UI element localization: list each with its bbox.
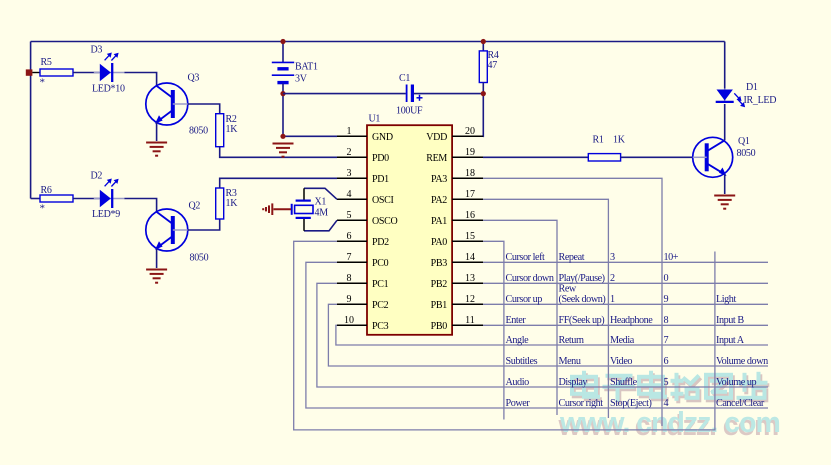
wire Q1 collector to D1: [724, 104, 726, 140]
svg-text:PD1: PD1: [372, 174, 389, 185]
svg-text:Media: Media: [610, 335, 635, 346]
key matrix labels: [506, 252, 769, 409]
junction R4 / C1 / VDD: [481, 91, 486, 96]
wire rail to BAT1: [282, 42, 284, 63]
svg-text:PC2: PC2: [372, 300, 389, 311]
LED D2: [94, 179, 125, 209]
ground Q2 emitter: [146, 270, 167, 283]
wire X1 bottom pin stub: [303, 219, 305, 231]
svg-text:PB1: PB1: [431, 300, 448, 311]
U1 pin 4 OSCI: [337, 198, 367, 200]
U1 pin 1 GND: [337, 135, 367, 137]
svg-text:20: 20: [465, 126, 475, 137]
wire OSCI pin4 to X1 top: [304, 188, 337, 199]
U1 pin 11 PB0: [452, 324, 483, 326]
wire PC1 pin8 loop to Audio row: [317, 283, 768, 387]
node R5 input port: [26, 69, 33, 75]
svg-text:3: 3: [347, 168, 352, 179]
svg-text:11: 11: [465, 315, 475, 326]
svg-text:Cursor up: Cursor up: [506, 294, 543, 305]
svg-text:OSCO: OSCO: [372, 216, 398, 227]
wire R5 left stub: [32, 72, 40, 74]
svg-text:Audio: Audio: [506, 377, 530, 388]
svg-text:3V: 3V: [295, 74, 308, 85]
svg-text:R5: R5: [41, 57, 52, 68]
wire D2 cathode to Q2 collector: [125, 199, 157, 213]
svg-text:D2: D2: [91, 171, 103, 182]
svg-text:Angle: Angle: [506, 335, 530, 346]
capacitor C1: [407, 85, 423, 103]
wire BAT1 to C1: [283, 93, 406, 95]
svg-text:5: 5: [664, 377, 669, 388]
ground X1 case (signal ground): [263, 203, 291, 215]
resistor R5: [40, 69, 73, 76]
svg-text:1K: 1K: [226, 198, 239, 209]
svg-text:REM: REM: [426, 153, 447, 164]
svg-text:7: 7: [664, 335, 669, 346]
svg-text:13: 13: [465, 273, 475, 284]
svg-text:8: 8: [664, 315, 669, 326]
wire R4 to VDD pin 20: [482, 83, 484, 137]
wire D3 cathode to Q3 collector: [125, 73, 157, 87]
svg-text:14: 14: [465, 252, 475, 263]
svg-text:LED*10: LED*10: [92, 84, 125, 95]
U1 pin 13 PB2: [452, 282, 483, 284]
wire Q2 emitter to ground: [156, 249, 158, 269]
U1 pin 10 PC3: [337, 324, 367, 326]
svg-text:Cursor down: Cursor down: [506, 273, 554, 284]
U1 pin 15 PA0: [452, 240, 483, 242]
wire D1 anode to rail: [724, 42, 726, 89]
svg-text:PA0: PA0: [431, 237, 447, 248]
svg-text:U1: U1: [369, 114, 381, 125]
svg-text:1: 1: [610, 294, 615, 305]
svg-text:1: 1: [347, 126, 352, 137]
svg-text:PC1: PC1: [372, 279, 389, 290]
svg-text:PB2: PB2: [431, 279, 448, 290]
svg-text:D3: D3: [91, 45, 103, 56]
wire PD2 pin6 loop to column 5: [294, 241, 715, 430]
svg-text:0: 0: [664, 273, 669, 284]
resistor R6: [40, 195, 73, 202]
svg-text:3: 3: [610, 252, 615, 263]
U1 pin 17 PA2: [452, 198, 483, 200]
svg-text:Light: Light: [716, 294, 736, 305]
svg-text:4M: 4M: [315, 208, 329, 219]
U1 pin 7 PC0: [337, 261, 367, 263]
LED D3: [94, 53, 125, 83]
svg-text:Rew: Rew: [559, 284, 577, 295]
battery BAT1: [272, 62, 294, 82]
U1 pin 8 PC1: [337, 282, 367, 284]
svg-text:Enter: Enter: [506, 315, 527, 326]
svg-text:1K: 1K: [613, 135, 626, 146]
wire R6 to D2: [73, 198, 100, 200]
svg-text:R6: R6: [41, 185, 52, 196]
svg-text:*: *: [40, 77, 45, 89]
svg-text:Input B: Input B: [716, 315, 744, 326]
svg-text:8050: 8050: [737, 148, 756, 159]
wire PB3 pin14 key row 1: [483, 261, 768, 263]
svg-text:Volume up: Volume up: [716, 377, 757, 388]
svg-text:PA1: PA1: [431, 216, 447, 227]
wire Q3 base to R2: [188, 104, 220, 114]
svg-text:7: 7: [347, 252, 352, 263]
LED D1: [716, 89, 745, 108]
wire Q3 emitter to ground: [156, 123, 158, 142]
svg-text:2: 2: [610, 273, 615, 284]
svg-text:10: 10: [344, 315, 354, 326]
wire rail to R4: [482, 42, 484, 51]
svg-text:Power: Power: [506, 398, 531, 409]
svg-text:OSCI: OSCI: [372, 195, 394, 206]
U1 pin 14 PB3: [452, 261, 483, 263]
svg-text:PC3: PC3: [372, 321, 389, 332]
svg-text:GND: GND: [372, 132, 393, 143]
U1 pin 16 PA1: [452, 219, 483, 221]
wire X1 top pin stub: [303, 188, 305, 200]
wire R5 to D3: [73, 72, 100, 74]
U1 pin 6 PD2: [337, 240, 367, 242]
resistor R4: [479, 51, 487, 83]
wire REM pin19 to R1: [483, 156, 588, 158]
wire PC3 pin10 loop to Angle row: [336, 325, 768, 345]
svg-text:VDD: VDD: [426, 132, 447, 143]
svg-text:Stop(Eject): Stop(Eject): [610, 398, 652, 409]
wire PA1 pin16 key column 2: [483, 220, 557, 415]
svg-text:Volume down: Volume down: [716, 356, 768, 367]
junction R4 top rail: [481, 39, 486, 44]
wire PA0 pin15 key column 1: [483, 241, 504, 419]
svg-text:D1: D1: [746, 82, 758, 93]
svg-text:8050: 8050: [190, 253, 209, 264]
ground Q3 emitter: [146, 143, 167, 156]
svg-text:Cancel/Clear: Cancel/Clear: [716, 398, 765, 409]
svg-text:16: 16: [465, 210, 475, 221]
svg-text:18: 18: [465, 168, 475, 179]
svg-text:1K: 1K: [226, 124, 239, 135]
svg-text:Shuffle: Shuffle: [610, 377, 638, 388]
junction BAT1 top rail: [280, 39, 285, 44]
svg-text:PA2: PA2: [431, 195, 447, 206]
svg-text:PB3: PB3: [431, 258, 448, 269]
svg-text:4: 4: [347, 189, 352, 200]
junction BAT1 minus / C1: [280, 91, 285, 96]
svg-text:4: 4: [664, 398, 669, 409]
svg-text:Repeat: Repeat: [559, 252, 585, 263]
wire left rail to R6: [31, 198, 40, 200]
svg-text:Play(/Pause): Play(/Pause): [559, 273, 605, 284]
wire PB1 pin12 key row 3: [483, 303, 768, 305]
svg-text:LED*9: LED*9: [92, 209, 120, 220]
svg-text:8050: 8050: [189, 126, 208, 137]
svg-text:9: 9: [347, 294, 352, 305]
svg-text:Cursor right: Cursor right: [559, 398, 604, 409]
svg-text:8: 8: [347, 273, 352, 284]
U1 pin 2 PD0: [337, 156, 367, 158]
svg-text:12: 12: [465, 294, 475, 305]
svg-text:IR_LED: IR_LED: [744, 95, 777, 106]
transistor Q3: [146, 83, 188, 125]
ground battery minus: [273, 144, 294, 157]
wire PB2 pin13 key row 2: [483, 282, 768, 284]
svg-text:PD2: PD2: [372, 237, 389, 248]
svg-text:47: 47: [488, 60, 498, 71]
wire PC2 pin9 loop to Subtitles row: [328, 304, 768, 366]
svg-text:9: 9: [664, 294, 669, 305]
svg-text:Q3: Q3: [188, 73, 200, 84]
svg-text:X1: X1: [315, 197, 327, 208]
U1 pin 19 REM: [452, 156, 483, 158]
wire BAT1 minus to GND pin 1: [283, 84, 337, 137]
ground Q1 emitter: [714, 196, 735, 209]
svg-text:Subtitles: Subtitles: [506, 356, 538, 367]
svg-text:6: 6: [347, 231, 352, 242]
svg-text:(Seek down): (Seek down): [559, 294, 606, 305]
svg-text:100UF: 100UF: [396, 106, 423, 117]
svg-text:2: 2: [347, 147, 352, 158]
wire Q2 base to R3: [188, 219, 220, 230]
resistor R2: [216, 114, 224, 147]
U1 pin 5 OSCO: [337, 219, 367, 221]
svg-text:10+: 10+: [664, 252, 679, 263]
svg-text:15: 15: [465, 231, 475, 242]
wire PC0 pin7 loop to Power row: [306, 262, 768, 408]
transistor Q1: [693, 137, 733, 177]
svg-text:R1: R1: [593, 135, 604, 146]
svg-text:PA3: PA3: [431, 174, 447, 185]
svg-text:Input A: Input A: [716, 335, 745, 346]
wire PA3 pin18 key column 4: [483, 178, 662, 426]
U1 pin 9 PC2: [337, 303, 367, 305]
wire left rail down to R5/R6: [30, 42, 32, 199]
wire VCC top rail: [31, 41, 725, 43]
svg-text:Display: Display: [559, 377, 589, 388]
svg-text:Cursor left: Cursor left: [506, 252, 546, 263]
U1 pin 20 VDD: [452, 135, 483, 137]
svg-text:19: 19: [465, 147, 475, 158]
wire R1 to Q1 base: [621, 156, 693, 158]
svg-text:Headphone: Headphone: [610, 315, 653, 326]
transistor Q2: [146, 209, 188, 251]
svg-text:Q2: Q2: [189, 201, 201, 212]
wire PA2 pin17 key column 3: [483, 199, 608, 418]
wire PB0 pin11 key row 4: [483, 324, 768, 326]
resistor R3: [216, 188, 224, 219]
wire R2 to PD0 pin 2: [220, 147, 337, 158]
svg-text:Video: Video: [610, 356, 632, 367]
svg-text:www. cndzz. com: www. cndzz. com: [559, 407, 780, 439]
svg-text:Menu: Menu: [559, 356, 581, 367]
crystal X1: [292, 201, 313, 218]
wire R3 to PD1 pin 3: [220, 178, 337, 188]
watermark cndzz: [558, 373, 780, 442]
wire OSCO pin5 to X1 bottom: [304, 220, 337, 231]
svg-text:6: 6: [664, 356, 669, 367]
svg-text:*: *: [40, 203, 45, 215]
op-amp U1 microcontroller body: [367, 125, 452, 335]
svg-text:PB0: PB0: [431, 321, 448, 332]
resistor R1: [588, 154, 620, 161]
svg-text:FF(Seek up): FF(Seek up): [559, 315, 605, 326]
svg-text:C1: C1: [399, 73, 410, 84]
svg-text:BAT1: BAT1: [295, 62, 318, 73]
svg-text:PD0: PD0: [372, 153, 389, 164]
svg-text:Q1: Q1: [738, 136, 750, 147]
U1 pin 12 PB1: [452, 303, 483, 305]
U1 pin 3 PD1: [337, 177, 367, 179]
svg-text:17: 17: [465, 189, 475, 200]
junction GND net: [280, 134, 285, 139]
svg-text:PC0: PC0: [372, 258, 389, 269]
U1 pin 18 PA3: [452, 177, 483, 179]
wire C1 to R4/VDD node: [414, 93, 484, 95]
svg-text:5: 5: [347, 210, 352, 221]
wire Q1 emitter to ground: [724, 174, 726, 194]
svg-text:Return: Return: [559, 335, 584, 346]
